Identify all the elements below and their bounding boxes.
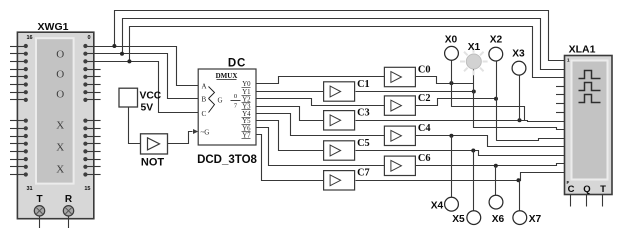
wire branch X2 column to XLA1 ch10: [497, 139, 565, 141]
XLA1 screen waveform glyph 3: [579, 95, 601, 103]
svg-text:X7: X7: [529, 214, 542, 225]
wire NOT output to decoder ~G with arrowhead: [168, 129, 199, 144]
wire C1 output to X1 column: [356, 91, 474, 93]
wire rail 2: XWG1 pin1 to XLA1 pin2: [123, 19, 565, 70]
svg-text:G: G: [218, 97, 223, 105]
svg-text:16: 16: [27, 35, 33, 41]
wire C3 output to XLA1 ch8: [356, 121, 565, 122]
junction node X2: [494, 97, 498, 101]
svg-text:C0: C0: [418, 64, 431, 75]
svg-text:C2: C2: [418, 93, 431, 104]
probe X7: [513, 211, 527, 225]
svg-text:DC: DC: [228, 58, 246, 70]
wire lamp column X1: [473, 69, 475, 128]
XWG1 screen: [36, 38, 74, 183]
wire Y5 to C5 input: [257, 121, 324, 151]
svg-text:0: 0: [87, 35, 90, 41]
svg-text:B: B: [202, 96, 207, 104]
instrument XWG1 word generator body: [17, 32, 93, 219]
decoder U1 DCD_3TO8 body: [198, 69, 256, 145]
svg-text:X: X: [56, 164, 64, 176]
XWG1 right pins 0-15 (stubs with dots): [83, 44, 100, 177]
svg-text:DMUX: DMUX: [216, 72, 238, 80]
probe X5: [467, 211, 481, 225]
XLA1 tiny pin marks: [567, 58, 571, 186]
svg-text:NOT: NOT: [141, 157, 165, 169]
junction node on pin0 wire: [112, 44, 116, 48]
svg-text:C6: C6: [418, 153, 431, 164]
XWG1 terminal R: [63, 206, 73, 216]
svg-text:C1: C1: [357, 79, 370, 90]
wire Y1 to C1 input: [257, 91, 324, 93]
buffer gate C0: [384, 67, 415, 86]
svg-text:A: A: [202, 83, 207, 91]
junction node X3: [518, 118, 522, 122]
svg-text:C7: C7: [357, 168, 370, 179]
svg-text:X1: X1: [468, 42, 481, 53]
svg-text:C: C: [568, 184, 575, 195]
svg-text:C: C: [202, 110, 207, 118]
svg-text:Y5: Y5: [242, 118, 251, 125]
svg-text:XLA1: XLA1: [569, 44, 596, 56]
svg-text:X4: X4: [431, 201, 444, 212]
svg-text:X6: X6: [492, 214, 505, 225]
svg-text:O: O: [56, 69, 64, 81]
wire C0 output to X0 column: [416, 77, 474, 84]
XLA1 terminal stubs: [571, 195, 603, 207]
buffer gate C3: [324, 111, 355, 130]
XWG1 screen pattern O O O: [56, 49, 64, 101]
XWG1 corner pin numbers 16 / 0 / 31 / 15: [27, 35, 91, 192]
svg-text:O: O: [56, 89, 64, 101]
buffer gate C1: [324, 82, 355, 101]
svg-text:O: O: [56, 49, 64, 61]
svg-text:5V: 5V: [141, 103, 154, 114]
svg-text:Q: Q: [583, 184, 590, 195]
svg-text:C3: C3: [357, 108, 370, 119]
power source VCC: [119, 88, 138, 107]
instrument XLA1 logic analyzer body: [565, 56, 613, 195]
decoder binary-weight brace: [209, 87, 215, 113]
svg-text:C4: C4: [418, 123, 431, 134]
svg-text:VCC: VCC: [140, 91, 162, 102]
probe X6: [489, 195, 503, 209]
decoder DMUX title: [216, 72, 238, 80]
probe X3: [512, 61, 526, 75]
decoder output pin labels Y0-Y7: [242, 81, 252, 140]
wire Y6 to C6 input: [257, 128, 385, 166]
wire lamp column X4: [451, 136, 453, 197]
svg-text:31: 31: [27, 186, 33, 192]
wire from T terminal down: [39, 216, 41, 228]
probe X0: [445, 46, 459, 60]
wire Y0 to C0 input: [257, 77, 385, 84]
buffer gate C4: [384, 126, 415, 145]
svg-text:Y0: Y0: [242, 81, 251, 88]
junction node X7: [517, 178, 521, 182]
wire XWG1 pin0 to decoder input A: [94, 47, 199, 86]
XLA1 screen waveform glyph 1: [579, 71, 601, 79]
svg-text:DCD_3TO8: DCD_3TO8: [197, 154, 257, 166]
XWG1 left pins 16-31 (stubs with dots): [10, 44, 28, 177]
wire C4 output to XLA1 ch11: [416, 136, 565, 147]
svg-text:X0: X0: [445, 35, 458, 46]
wire C5 output to XLA1 ch12: [356, 151, 565, 156]
wire Y4 to C4 input: [257, 114, 385, 136]
XLA1 terminal labels C Q T: [568, 184, 607, 195]
svg-text:X5: X5: [452, 214, 465, 225]
decoder pin ~G: [201, 128, 210, 136]
probe X4: [445, 197, 459, 211]
decoder G 0/7 group symbol: [218, 93, 241, 110]
junction node X4: [449, 134, 453, 138]
junction node X5: [471, 149, 475, 153]
wire rail 3: XWG1 pin2 to XLA1 pin3: [130, 27, 565, 78]
wire C6 output to XLA1 ch13: [416, 164, 565, 166]
svg-text:15: 15: [84, 186, 90, 192]
buffer gate C7: [324, 171, 355, 190]
XLA1 unconnected pin stubs: [556, 87, 565, 113]
buffer gate C5: [324, 141, 355, 160]
junction node X6: [494, 164, 498, 168]
svg-text:Y4: Y4: [242, 111, 251, 118]
wire lamp column X2: [496, 61, 498, 141]
probe X2: [489, 47, 503, 61]
wire Y2 to C2 input: [257, 99, 385, 106]
svg-text:~G: ~G: [201, 128, 210, 136]
svg-text:XWG1: XWG1: [38, 21, 69, 33]
svg-text:Y1: Y1: [242, 89, 250, 96]
junction node X1: [472, 90, 476, 94]
wire C7 output to XLA1 ch14: [356, 173, 565, 181]
wire C2 output to X2 column: [416, 99, 497, 106]
junction node X0: [449, 81, 453, 85]
wire VCC to NOT input: [129, 107, 141, 144]
XLA1 screen waveform glyph 2: [579, 83, 601, 91]
svg-text:T: T: [600, 184, 606, 195]
buffer gate C2: [384, 96, 415, 115]
svg-text:X: X: [56, 120, 64, 132]
wire lamp column X6: [495, 166, 497, 195]
svg-text:X3: X3: [512, 49, 525, 60]
wire XWG1 pin2 to decoder input C: [94, 62, 199, 113]
wire branch X0 column to C3 line: [452, 107, 525, 121]
wire from R terminal down: [68, 216, 70, 228]
probe X1 (lit): [460, 48, 488, 76]
XWG1 screen pattern X X X: [56, 120, 64, 176]
NOT gate U2: [141, 134, 168, 154]
svg-text:R: R: [65, 194, 73, 205]
svg-text:C5: C5: [357, 138, 370, 149]
wire Y3 to C3 input: [257, 107, 324, 121]
VCC value label: [140, 91, 162, 114]
svg-text:X: X: [56, 142, 64, 154]
svg-text:X2: X2: [490, 35, 503, 46]
wire lamp column X3: [519, 75, 521, 120]
wire lamp column X0: [451, 60, 453, 107]
wire rail 1: XWG1 pin0 to XLA1 pin1: [115, 11, 565, 61]
wire branch X1 column to XLA1 ch9: [474, 128, 565, 130]
junction node on pin1 wire: [120, 52, 124, 56]
junction node on pin2 wire: [127, 59, 131, 63]
wire Y7 to C7 input: [257, 135, 324, 181]
svg-text:T: T: [36, 194, 42, 205]
wire lamp column X5: [473, 151, 475, 211]
XWG1 terminal T: [34, 206, 44, 216]
svg-text:0: 0: [234, 93, 237, 100]
wire XWG1 pin1 to decoder input B: [94, 54, 199, 99]
XLA1 screen: [572, 61, 608, 180]
wire lamp column X7: [519, 180, 521, 210]
buffer gate C6: [384, 156, 415, 175]
